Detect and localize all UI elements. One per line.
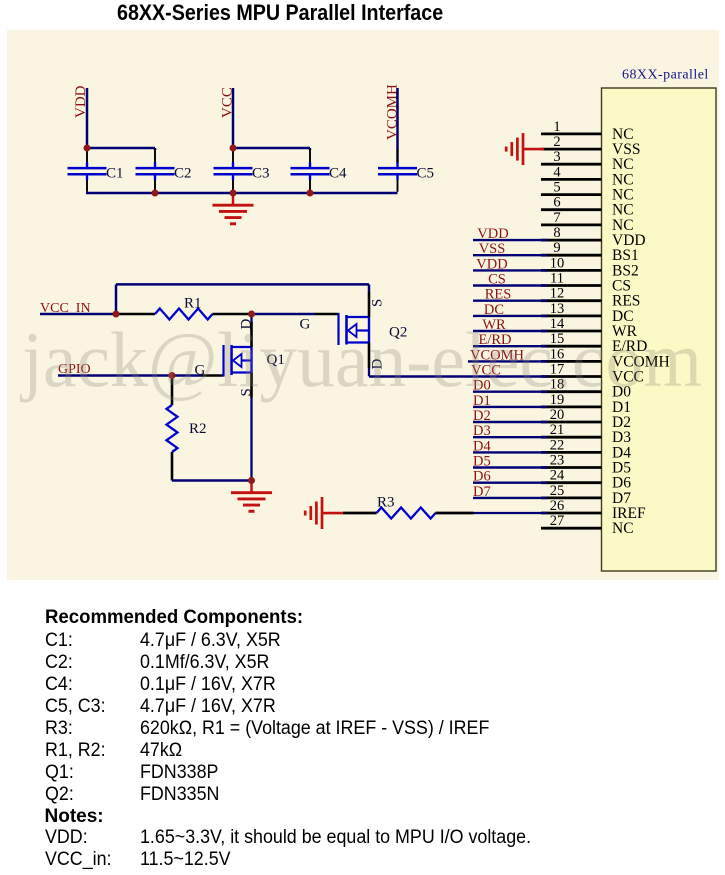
svg-text:C5: C5 xyxy=(417,166,435,182)
wire net stub pin 21 xyxy=(473,436,547,438)
svg-text:D3: D3 xyxy=(473,423,491,439)
svg-text:CS: CS xyxy=(488,272,506,288)
wire IREF net xyxy=(474,512,548,514)
transistor Q1 xyxy=(224,345,252,377)
svg-text:4: 4 xyxy=(553,164,561,180)
transistor Q1 drain pin wire xyxy=(250,322,253,347)
svg-text:2: 2 xyxy=(553,134,560,150)
pin 15 (E/RD) xyxy=(541,331,647,355)
transistor Q1 gate pin xyxy=(201,374,224,377)
svg-text:D7: D7 xyxy=(473,484,491,500)
pin 10 (BS2) xyxy=(541,255,639,279)
wire net stub pin 22 xyxy=(473,451,547,453)
svg-text:R1: R1 xyxy=(184,296,202,312)
wire bottom rail xyxy=(86,192,398,195)
svg-text:10: 10 xyxy=(550,255,565,271)
svg-text:NC: NC xyxy=(612,520,634,537)
wire VCOMH down xyxy=(396,88,399,163)
pin 12 (RES) xyxy=(541,286,640,310)
pin 25 (D7) xyxy=(541,483,631,507)
svg-text:R2: R2 xyxy=(189,421,207,437)
pin 27 (NC) xyxy=(541,513,634,537)
wire GPIO xyxy=(58,374,201,377)
svg-text:24: 24 xyxy=(550,468,565,484)
resistor R1 lead xyxy=(118,313,155,316)
node C4 bottom junction xyxy=(307,190,314,197)
wire VCC_IN xyxy=(40,313,118,316)
wire net stub pin 20 xyxy=(473,421,547,423)
svg-text:6: 6 xyxy=(553,195,560,211)
resistor R1 lead xyxy=(213,313,252,316)
pin 1 (NC) xyxy=(541,119,634,143)
wire VCOMH net stub xyxy=(468,360,547,362)
pin 7 (NC) xyxy=(541,210,634,234)
node VCC_IN/R1 junction xyxy=(113,311,120,318)
pin 3 (NC) xyxy=(541,149,634,173)
wire VCC down xyxy=(232,88,235,148)
pin 5 (NC) xyxy=(541,180,634,204)
pin 6 (NC) xyxy=(541,195,634,219)
wire net stub pin 15 xyxy=(473,345,547,347)
node C3/ground junction xyxy=(230,190,237,197)
svg-text:D2: D2 xyxy=(473,408,491,424)
svg-text:26: 26 xyxy=(550,498,565,514)
title xyxy=(117,2,443,24)
wire R2 bottom to Q1 source xyxy=(172,479,252,482)
svg-text:11: 11 xyxy=(550,271,564,287)
resistor R3 xyxy=(377,508,436,519)
notes heading xyxy=(45,807,104,826)
pin 14 (WR) xyxy=(541,316,638,340)
svg-text:20: 20 xyxy=(550,407,565,423)
node VDD/C1 junction xyxy=(84,145,91,152)
wire top rail to Q2 source xyxy=(116,283,369,286)
pin 18 (D0) xyxy=(541,377,631,401)
svg-text:13: 13 xyxy=(550,301,565,317)
svg-text:23: 23 xyxy=(550,453,565,469)
wire stub C4 top xyxy=(309,148,312,150)
svg-text:21: 21 xyxy=(550,422,565,438)
transistor Q2 gate pin xyxy=(315,313,339,316)
wire VCC net (Q2 drain to pin 17) xyxy=(369,375,547,377)
IC U1 68XX-parallel xyxy=(602,88,717,571)
svg-text:12: 12 xyxy=(550,286,565,302)
svg-text:D6: D6 xyxy=(473,469,491,485)
recommended components heading xyxy=(45,608,303,627)
capacitor C5 xyxy=(378,149,434,192)
node R1/Q1 drain/Q2 gate junction xyxy=(248,311,255,318)
node VCC/C3 junction xyxy=(230,145,237,152)
wire Q2 gate xyxy=(252,313,316,316)
wire net stub pin 13 xyxy=(473,315,547,317)
pin 21 (D3) xyxy=(541,422,631,446)
wire net stub pin 24 xyxy=(473,482,547,484)
svg-text:9: 9 xyxy=(553,240,560,256)
capacitor C3 xyxy=(214,149,270,192)
transistor Q2 xyxy=(339,313,370,345)
svg-text:8: 8 xyxy=(553,225,560,241)
wire net stub pin 11 xyxy=(473,284,547,286)
pin 24 (D6) xyxy=(541,468,631,492)
svg-text:S: S xyxy=(369,299,385,307)
pin 13 (DC) xyxy=(541,301,634,325)
wire net stub pin 9 xyxy=(473,254,547,256)
pin 16 (VCOMH) xyxy=(541,346,670,370)
capacitor C1 xyxy=(68,149,124,192)
capacitor C4 xyxy=(291,149,348,192)
svg-text:C1: C1 xyxy=(106,166,124,182)
wire stub xyxy=(86,148,89,150)
svg-text:27: 27 xyxy=(550,513,565,529)
svg-text:VDD: VDD xyxy=(476,256,507,272)
transistor Q2 source pin wire xyxy=(368,292,371,317)
svg-text:C3: C3 xyxy=(252,166,270,182)
svg-text:VDD: VDD xyxy=(477,226,508,242)
svg-text:1: 1 xyxy=(553,119,560,135)
pin 9 (BS1) xyxy=(541,240,639,264)
svg-text:68XX-parallel: 68XX-parallel xyxy=(622,68,709,83)
wire net stub pin 14 xyxy=(473,330,547,332)
wire Q2 source xyxy=(368,284,371,292)
wire net stub pin 10 xyxy=(473,269,547,271)
transistor Q2 drain pin wire xyxy=(368,343,371,369)
resistor R3 leads xyxy=(343,512,377,515)
ground (pin 2 VSS) xyxy=(506,133,544,165)
pin 2 (VSS) xyxy=(541,134,640,158)
pin 26 (IREF) xyxy=(541,498,646,522)
svg-text:VSS: VSS xyxy=(479,241,506,257)
ground (Q1 source) xyxy=(231,481,272,512)
resistor R2 xyxy=(167,405,178,452)
pin 20 (D2) xyxy=(541,407,631,431)
transistor Q1 source pin wire xyxy=(250,373,253,398)
pin 11 (CS) xyxy=(541,271,631,295)
ground (IREF) xyxy=(305,497,343,529)
wire VCC_IN up xyxy=(115,284,118,314)
svg-text:22: 22 xyxy=(550,437,565,453)
resistor R3 lead xyxy=(436,512,474,515)
wire net stub pin 18 xyxy=(473,391,547,393)
svg-text:RES: RES xyxy=(485,287,512,303)
svg-text:C2: C2 xyxy=(174,166,192,182)
wire VDD down xyxy=(86,88,89,148)
node C2 bottom junction xyxy=(152,190,159,197)
capacitor C2 xyxy=(136,149,192,192)
wire top rail VDD group xyxy=(87,147,155,150)
svg-text:C4: C4 xyxy=(329,166,347,182)
wire net stub pin 23 xyxy=(473,466,547,468)
node GPIO/R2 junction xyxy=(169,372,176,379)
resistor R2 leads xyxy=(171,376,174,406)
resistor R2 lead xyxy=(171,452,174,481)
svg-text:5: 5 xyxy=(553,180,560,196)
wire stub C2 top xyxy=(154,148,157,150)
ground (decoupling) xyxy=(213,193,254,224)
wire net stub pin 12 xyxy=(473,300,547,302)
wire net stub pin 8 xyxy=(473,239,547,241)
svg-text:R3: R3 xyxy=(377,495,395,511)
pin 4 (NC) xyxy=(541,164,634,188)
resistor R1 xyxy=(155,309,213,320)
pin 23 (D5) xyxy=(541,453,631,477)
svg-text:7: 7 xyxy=(553,210,560,226)
svg-text:3: 3 xyxy=(553,149,560,165)
svg-text:D5: D5 xyxy=(473,454,491,470)
svg-text:jack@liyuan-elec.com: jack@liyuan-elec.com xyxy=(19,316,702,403)
pin 17 (VCC) xyxy=(541,362,644,386)
wire net stub pin 25 xyxy=(473,497,547,499)
pin 22 (D4) xyxy=(541,437,631,461)
wire top rail VCC group xyxy=(233,147,310,150)
wire net stub pin 19 xyxy=(473,406,547,408)
pin 8 (VDD) xyxy=(541,225,646,249)
pin 19 (D1) xyxy=(541,392,631,416)
svg-text:25: 25 xyxy=(550,483,565,499)
node Q1 source/R2/ground junction xyxy=(248,477,255,484)
svg-text:D4: D4 xyxy=(473,438,491,454)
